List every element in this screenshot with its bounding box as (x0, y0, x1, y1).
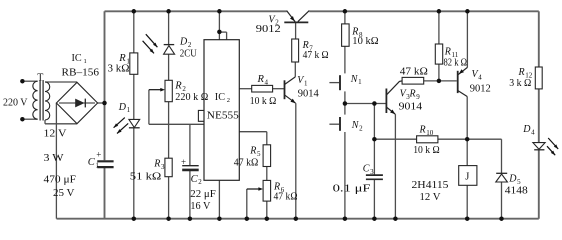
svg-text:3 W: 3 W (44, 153, 64, 164)
svg-text:220 k Ω: 220 k Ω (175, 92, 208, 103)
svg-text:4148: 4148 (505, 186, 528, 197)
svg-text:IC: IC (72, 53, 82, 64)
svg-text:47 kΩ: 47 kΩ (274, 192, 298, 203)
svg-text:1: 1 (84, 58, 87, 65)
svg-text:9014: 9014 (298, 89, 320, 100)
svg-text:+: + (181, 157, 186, 167)
svg-text:3 kΩ: 3 kΩ (108, 64, 130, 75)
svg-text:22 μF: 22 μF (190, 189, 216, 200)
svg-text:RB–156: RB–156 (62, 67, 100, 78)
svg-text:47 kΩ: 47 kΩ (234, 158, 259, 169)
svg-text:2H4115: 2H4115 (412, 180, 449, 191)
svg-text:47 k Ω: 47 k Ω (303, 50, 329, 61)
svg-text:16 V: 16 V (190, 201, 210, 212)
svg-text:12 V: 12 V (420, 192, 441, 203)
svg-text:10 k Ω: 10 k Ω (250, 96, 277, 107)
svg-text:IC: IC (215, 92, 225, 103)
svg-text:470 μF: 470 μF (44, 175, 77, 186)
svg-text:0.1 μF: 0.1 μF (333, 183, 371, 194)
svg-text:9014: 9014 (399, 102, 423, 113)
svg-text:T: T (37, 73, 43, 84)
svg-text:9012: 9012 (256, 24, 281, 35)
svg-text:51 kΩ: 51 kΩ (130, 172, 162, 183)
svg-text:82 k Ω: 82 k Ω (444, 58, 468, 69)
svg-text:NE555: NE555 (207, 111, 239, 122)
svg-text:25 V: 25 V (53, 188, 75, 199)
svg-text:3 k Ω: 3 k Ω (509, 78, 531, 89)
svg-text:9012: 9012 (470, 84, 491, 95)
svg-text:2CU: 2CU (180, 49, 197, 60)
svg-text:2: 2 (227, 97, 230, 104)
svg-text:220 V: 220 V (3, 97, 28, 108)
svg-text:12 V: 12 V (44, 129, 67, 140)
svg-text:+: + (96, 150, 101, 160)
svg-text:J: J (465, 171, 469, 182)
svg-text:10 k Ω: 10 k Ω (413, 145, 440, 156)
svg-text:47 kΩ: 47 kΩ (400, 66, 428, 77)
svg-text:10 kΩ: 10 kΩ (352, 36, 378, 47)
